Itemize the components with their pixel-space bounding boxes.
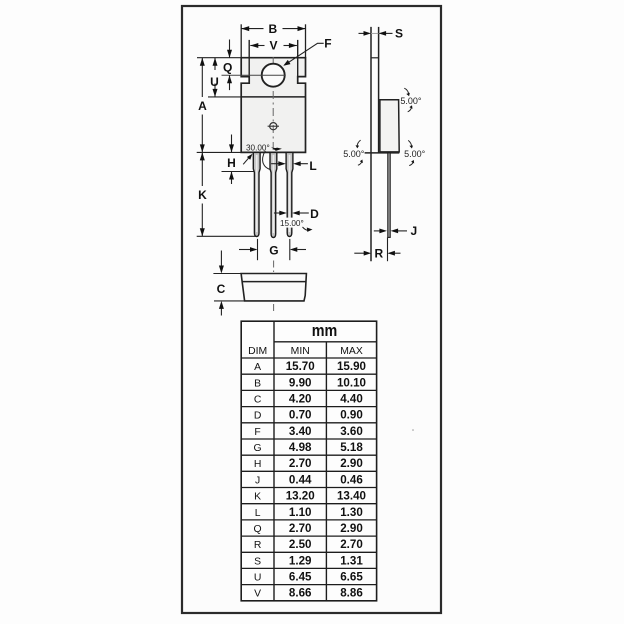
svg-text:1.10: 1.10 bbox=[289, 506, 312, 519]
svg-text:H: H bbox=[254, 459, 262, 470]
dimension L bbox=[271, 163, 279, 165]
table row lines bbox=[241, 342, 376, 585]
svg-text:Q: Q bbox=[223, 61, 232, 75]
border frame bbox=[182, 6, 441, 613]
svg-text:F: F bbox=[254, 427, 260, 438]
B extension line left (tab edge extended) bbox=[240, 24, 242, 57]
svg-text:2.70: 2.70 bbox=[289, 522, 312, 535]
svg-text:J: J bbox=[255, 475, 260, 486]
svg-text:1.30: 1.30 bbox=[340, 506, 363, 519]
svg-text:4.40: 4.40 bbox=[340, 393, 363, 406]
side tab right face bbox=[378, 27, 380, 153]
dimension Q bbox=[229, 40, 231, 58]
svg-text:MAX: MAX bbox=[340, 346, 363, 357]
table column line DIM/MIN bbox=[273, 321, 275, 601]
dimension B bbox=[241, 28, 305, 30]
svg-text:1.29: 1.29 bbox=[289, 554, 312, 567]
svg-text:L: L bbox=[255, 508, 261, 519]
svg-text:V: V bbox=[254, 589, 261, 600]
svg-text:15.70: 15.70 bbox=[286, 360, 315, 373]
tab/body boundary line bbox=[241, 96, 305, 98]
mounting hole F bbox=[262, 64, 285, 87]
tab top tick bbox=[371, 57, 379, 59]
svg-text:2.50: 2.50 bbox=[289, 538, 312, 551]
side body bbox=[380, 100, 399, 152]
svg-text:2.70: 2.70 bbox=[340, 538, 363, 551]
svg-text:U: U bbox=[210, 75, 219, 89]
lead extension line for J/R bbox=[387, 237, 389, 261]
svg-text:4.98: 4.98 bbox=[289, 441, 312, 454]
G extension lines bbox=[257, 239, 259, 260]
svg-text:D: D bbox=[254, 411, 262, 422]
svg-text:V: V bbox=[269, 39, 277, 53]
svg-text:U: U bbox=[254, 573, 262, 584]
C top extension line bbox=[213, 273, 241, 275]
lead 2 bbox=[270, 152, 277, 237]
svg-text:S: S bbox=[395, 27, 403, 41]
right groove line (V extension into tab) bbox=[297, 40, 299, 83]
svg-text:13.20: 13.20 bbox=[286, 490, 315, 503]
svg-text:1.31: 1.31 bbox=[340, 554, 363, 567]
svg-text:0.90: 0.90 bbox=[340, 409, 363, 422]
svg-text:3.40: 3.40 bbox=[289, 425, 312, 438]
svg-text:F: F bbox=[324, 37, 331, 51]
crossed circle datum mark bbox=[270, 123, 277, 130]
bottom view tab/plastic separation line bbox=[242, 281, 306, 283]
15.00 degree label with leader bbox=[279, 218, 307, 228]
svg-text:K: K bbox=[254, 492, 261, 503]
svg-text:5.00°: 5.00° bbox=[400, 96, 422, 106]
U bottom extension line bbox=[208, 96, 241, 98]
lead 3 bbox=[286, 152, 293, 236]
svg-text:15.00°: 15.00° bbox=[280, 219, 304, 228]
package front outline (tab + body with side notches) bbox=[241, 58, 305, 153]
H extension line bbox=[222, 171, 260, 173]
dimension R bbox=[354, 252, 364, 254]
svg-text:10.10: 10.10 bbox=[337, 376, 366, 389]
table column line MIN/MAX bbox=[325, 342, 327, 601]
dimension K bbox=[201, 152, 203, 236]
svg-text:L: L bbox=[309, 159, 316, 173]
svg-text:6.45: 6.45 bbox=[289, 571, 312, 584]
svg-text:3.60: 3.60 bbox=[340, 425, 363, 438]
C bottom extension line bbox=[214, 300, 245, 302]
body bottom line with left extension bbox=[365, 152, 400, 154]
svg-text:9.90: 9.90 bbox=[289, 376, 312, 389]
dimension U bbox=[214, 58, 216, 70]
dimension G bbox=[239, 249, 250, 251]
svg-text:5.00°: 5.00° bbox=[343, 149, 365, 159]
svg-text:G: G bbox=[269, 244, 278, 258]
svg-text:0.70: 0.70 bbox=[289, 409, 312, 422]
dimension V bbox=[250, 45, 297, 47]
svg-text:4.20: 4.20 bbox=[289, 393, 312, 406]
lower centerline (dash-dot) bbox=[273, 261, 275, 312]
svg-text:5.18: 5.18 bbox=[340, 441, 363, 454]
svg-text:13.40: 13.40 bbox=[337, 490, 366, 503]
bottom view outline bbox=[241, 274, 306, 301]
svg-text:2.70: 2.70 bbox=[289, 457, 312, 470]
A top extension line bbox=[197, 57, 241, 59]
lead 1 bbox=[253, 152, 260, 236]
30 degree taper arrow at lead 1 bbox=[243, 158, 248, 164]
svg-text:K: K bbox=[198, 188, 207, 202]
dimension A bbox=[201, 58, 203, 153]
svg-text:D: D bbox=[310, 207, 319, 221]
svg-text:2.90: 2.90 bbox=[340, 457, 363, 470]
svg-text:A: A bbox=[254, 362, 261, 373]
hole horizontal centerline bbox=[222, 74, 286, 76]
svg-text:J: J bbox=[411, 224, 418, 238]
scan speck bbox=[412, 429, 414, 431]
svg-text:6.65: 6.65 bbox=[340, 571, 363, 584]
svg-text:30.00°: 30.00° bbox=[246, 144, 270, 153]
svg-text:5.00°: 5.00° bbox=[404, 149, 426, 159]
svg-text:S: S bbox=[254, 556, 261, 567]
side lead bbox=[388, 153, 390, 238]
left groove line (V extension into tab) bbox=[248, 40, 250, 83]
dimension J bbox=[374, 230, 381, 232]
svg-text:DIM: DIM bbox=[248, 346, 267, 357]
svg-text:15.90: 15.90 bbox=[337, 360, 366, 373]
table rows bbox=[254, 360, 366, 600]
table outer border bbox=[241, 321, 376, 601]
body bottom extension line bbox=[197, 151, 242, 153]
svg-text:mm: mm bbox=[312, 321, 338, 340]
svg-text:Q: Q bbox=[254, 524, 262, 535]
svg-text:0.44: 0.44 bbox=[289, 473, 312, 486]
svg-text:C: C bbox=[254, 395, 262, 406]
B extension line right bbox=[305, 24, 307, 57]
dimension S bbox=[371, 32, 379, 34]
svg-text:MIN: MIN bbox=[291, 346, 310, 357]
svg-text:B: B bbox=[268, 22, 277, 36]
svg-text:8.86: 8.86 bbox=[340, 587, 363, 600]
dimension C bbox=[220, 251, 222, 267]
svg-text:2.90: 2.90 bbox=[340, 522, 363, 535]
dimension H bbox=[231, 135, 233, 153]
svg-text:0.46: 0.46 bbox=[340, 473, 363, 486]
vertical centerline (dashed) bbox=[272, 57, 274, 152]
svg-text:8.66: 8.66 bbox=[289, 587, 312, 600]
svg-text:C: C bbox=[217, 282, 226, 296]
K bottom extension line bbox=[197, 235, 258, 237]
dimension D bbox=[274, 212, 280, 214]
svg-text:B: B bbox=[254, 378, 261, 389]
svg-text:G: G bbox=[254, 443, 262, 454]
svg-text:R: R bbox=[254, 540, 262, 551]
svg-text:R: R bbox=[374, 247, 383, 261]
svg-text:H: H bbox=[227, 156, 236, 170]
svg-text:A: A bbox=[198, 99, 207, 113]
side tab left face (continues down as R extension line) bbox=[370, 27, 372, 261]
